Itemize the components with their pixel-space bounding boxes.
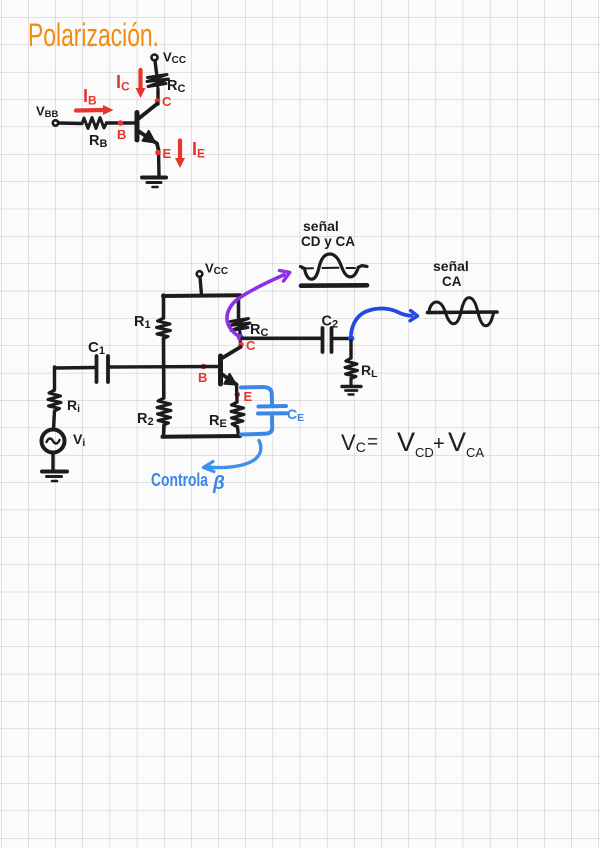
wire emitter to ground (bias circuit) bbox=[157, 150, 161, 176]
equation Vc = VCD + VCA bbox=[341, 427, 484, 460]
capacitor C2 bbox=[323, 328, 332, 352]
capacitor CE (blue) bracket bbox=[241, 387, 287, 435]
wire emitter to RE bbox=[235, 385, 239, 403]
capacitor C1 bbox=[97, 356, 109, 382]
label RB bbox=[89, 133, 107, 150]
wire RL to ground bbox=[349, 379, 352, 386]
label RE bbox=[209, 413, 227, 430]
current arrow IE (red) bbox=[175, 141, 185, 169]
terminal Vcc (bias circuit) bbox=[152, 55, 158, 61]
label C red (bias circuit) bbox=[162, 94, 172, 109]
current arrow IC (red) bbox=[136, 70, 146, 98]
label B red (amplifier) bbox=[198, 370, 207, 385]
label "CA" bbox=[442, 274, 462, 289]
label Ri bbox=[67, 397, 80, 415]
wire Ri to Vi bbox=[54, 411, 55, 429]
wire bottom rail (amplifier) bbox=[163, 434, 241, 439]
wire C2 to output node bbox=[333, 337, 351, 341]
ground (RL) bbox=[342, 387, 361, 395]
resistor RE bbox=[231, 402, 244, 427]
wire RB to base bbox=[107, 121, 136, 124]
dashed DC level line bbox=[302, 267, 355, 270]
baseline under CD+CA waveform bbox=[301, 283, 367, 288]
svg-text:C: C bbox=[246, 338, 256, 353]
label R2 bbox=[137, 411, 154, 428]
label "señal" (CD y CA) bbox=[303, 218, 339, 234]
wire Vi to ground bbox=[51, 453, 54, 471]
label C2 bbox=[322, 314, 339, 331]
label VBB bbox=[36, 104, 59, 121]
svg-text:CA: CA bbox=[442, 274, 462, 289]
svg-text:β: β bbox=[212, 473, 225, 494]
node C red dot (amplifier) bbox=[238, 342, 244, 348]
label RL bbox=[361, 362, 378, 380]
wire output node to RL bbox=[349, 341, 352, 358]
resistor RC (amplifier) bbox=[230, 317, 250, 334]
wire top rail (amplifier) bbox=[163, 293, 240, 298]
arrow to Controla beta (blue) bbox=[204, 441, 261, 472]
resistor RL bbox=[345, 358, 358, 379]
wire input corner to C1 bbox=[55, 366, 96, 370]
wire top rail to RC (amplifier) bbox=[237, 296, 241, 319]
label C1 bbox=[88, 339, 105, 357]
node C red dot (bias circuit) bbox=[155, 98, 161, 104]
resistor R2 bbox=[157, 398, 171, 425]
svg-text:C: C bbox=[162, 94, 172, 109]
label RC (bias circuit) bbox=[167, 78, 185, 95]
label IC (red) bbox=[116, 72, 130, 94]
node E red dot (bias circuit) bbox=[155, 150, 161, 156]
svg-text:B: B bbox=[117, 127, 126, 142]
waveform CA sine bbox=[429, 298, 494, 326]
svg-text:=: = bbox=[367, 432, 378, 453]
wire Vcc stub (amplifier) bbox=[200, 277, 202, 295]
label E red (amplifier) bbox=[244, 389, 253, 404]
label IB (red) bbox=[83, 86, 97, 108]
node B red dot (amplifier) bbox=[201, 364, 207, 370]
label IE (red) bbox=[192, 139, 205, 161]
svg-text:señal: señal bbox=[433, 258, 469, 274]
transistor Q1 NPN (bias circuit) bbox=[137, 104, 159, 151]
title "Polarización." bbox=[28, 17, 159, 53]
terminal Vcc (amplifier) bbox=[197, 271, 203, 277]
resistor RB bbox=[82, 118, 107, 129]
wire corner down to Ri bbox=[53, 367, 56, 390]
svg-text:+: + bbox=[433, 433, 445, 455]
ground (input source) bbox=[42, 472, 67, 482]
resistor R1 bbox=[157, 318, 171, 339]
current arrow IB (red) bbox=[76, 105, 114, 115]
svg-text:E: E bbox=[163, 146, 172, 161]
svg-text:señal: señal bbox=[303, 218, 339, 234]
source Vi (AC) bbox=[42, 430, 65, 453]
label E red (bias circuit) bbox=[163, 146, 172, 161]
wire C1 to base (amplifier) bbox=[110, 365, 220, 369]
wire Vcc to RC (bias circuit) bbox=[155, 61, 157, 74]
ground (bias circuit) bbox=[142, 178, 166, 188]
node E red dot (amplifier) bbox=[235, 392, 241, 398]
resistor RC (bias circuit) bbox=[147, 72, 169, 90]
terminal VBB bbox=[53, 120, 58, 125]
svg-text:Controla: Controla bbox=[151, 470, 209, 490]
svg-text:Polarización.: Polarización. bbox=[28, 17, 159, 53]
label R1 bbox=[134, 314, 151, 331]
resistor Ri bbox=[48, 390, 61, 411]
waveform CD+CA sine bbox=[301, 254, 368, 279]
label RC (amplifier) bbox=[250, 322, 268, 339]
svg-text:E: E bbox=[244, 389, 253, 404]
wire RC to collector node (bias circuit) bbox=[156, 90, 159, 105]
label CE (blue) bbox=[287, 406, 304, 424]
label "CD y CA" bbox=[301, 234, 355, 249]
label C red (amplifier) bbox=[246, 338, 256, 353]
arrow output to CA waveform (blue) bbox=[351, 308, 418, 334]
svg-text:B: B bbox=[198, 370, 207, 385]
node purple dot at collector bbox=[237, 334, 244, 341]
wire RC to collector node (amplifier) bbox=[238, 333, 242, 344]
label "señal" (CA) bbox=[433, 258, 469, 274]
label Vi bbox=[73, 431, 85, 449]
wire collector to C2 bbox=[242, 336, 320, 340]
svg-text:CD y CA: CD y CA bbox=[301, 234, 355, 249]
node B red dot (bias circuit) bbox=[118, 120, 124, 126]
wire R2 to bottom rail bbox=[162, 425, 166, 437]
arrow collector to CD+CA waveform (purple) bbox=[227, 271, 290, 337]
axis line CA waveform bbox=[428, 310, 498, 314]
wire top rail to R1 bbox=[162, 295, 166, 318]
node output (blue dot) bbox=[348, 335, 354, 341]
label Vcc (amplifier) bbox=[205, 261, 228, 278]
label Vcc (bias circuit) bbox=[163, 50, 186, 67]
wire VBB to RB bbox=[59, 121, 83, 125]
transistor Q2 NPN (amplifier) bbox=[221, 347, 241, 385]
label Controla beta (blue) bbox=[151, 470, 225, 494]
wire RE to bottom rail bbox=[238, 427, 239, 437]
label B red (bias circuit) bbox=[117, 127, 126, 142]
wire R1 to base junction to R2 bbox=[162, 339, 166, 399]
